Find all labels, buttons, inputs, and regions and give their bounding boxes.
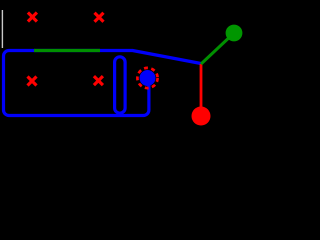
capsule loop [115, 57, 126, 113]
red start circle [192, 107, 211, 126]
obstacle X bottom-right [94, 76, 103, 85]
obstacle X bottom-left [28, 77, 37, 86]
green stem [201, 33, 234, 64]
green goal circle [226, 25, 243, 42]
wall segment (gray) [1, 10, 3, 48]
obstacle X top-right [95, 13, 104, 22]
green path overlay segment [34, 49, 100, 52]
obstacle X top-left [28, 13, 37, 22]
blue path loop [4, 51, 202, 116]
robot blue disc [140, 70, 156, 86]
red stem [200, 64, 203, 112]
robot dashed ring [137, 68, 157, 88]
